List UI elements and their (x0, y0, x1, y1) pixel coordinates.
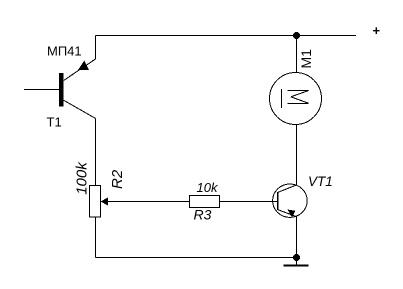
resistor R3 body (190, 196, 220, 208)
svg-text:МП41: МП41 (47, 44, 82, 59)
svg-text:Т1: Т1 (47, 115, 62, 130)
svg-text:R2: R2 (109, 169, 126, 189)
transistor VT1 emitter diagonal (278, 210, 297, 217)
transistor VT1 envelope circle (273, 184, 308, 217)
wire: VT1 collector up to motor (296, 125, 298, 186)
potentiometer R2 body (90, 186, 101, 218)
transistor VT1 collector diagonal (278, 185, 297, 193)
svg-text:R3: R3 (194, 207, 212, 223)
wire: T1 emitter to top rail (95, 36, 97, 60)
transistor T1 base lead wire (24, 89, 59, 91)
transistor T1 emitter diagonal (64, 59, 96, 81)
wire: T1 collector down to R2 (95, 118, 97, 185)
svg-text:+: + (373, 23, 381, 38)
transistor VT1 emitter arrow (288, 210, 296, 218)
wire: top rail to motor (296, 36, 298, 73)
transistor T1 collector diagonal (64, 100, 96, 118)
motor M1 symbol M (rotated) with underline bar (282, 89, 309, 108)
svg-text:10k: 10k (197, 180, 219, 195)
transistor T1 base bar (59, 73, 64, 106)
transistor VT1 base bar (277, 192, 279, 210)
wire: ground stub (296, 258, 298, 265)
wire: R2 bottom to ground rail (95, 217, 97, 258)
potentiometer R2 wiper arrow (101, 198, 108, 206)
node junction at ground (293, 254, 300, 261)
wire: R3 to VT1 base (220, 201, 278, 203)
svg-text:100k: 100k (74, 161, 91, 195)
svg-text:VT1: VT1 (308, 174, 333, 189)
wire: VT1 emitter down to ground node (296, 217, 298, 258)
ground symbol bar (284, 265, 309, 267)
svg-text:M1: M1 (298, 49, 314, 69)
wire: top positive rail (96, 35, 357, 37)
motor M1 envelope circle (270, 73, 322, 125)
wire: bottom rail (96, 257, 297, 259)
wire: R2 wiper to R3 (101, 201, 190, 203)
transistor T1 emitter arrow (78, 61, 89, 71)
node junction at top rail / motor (293, 32, 300, 39)
